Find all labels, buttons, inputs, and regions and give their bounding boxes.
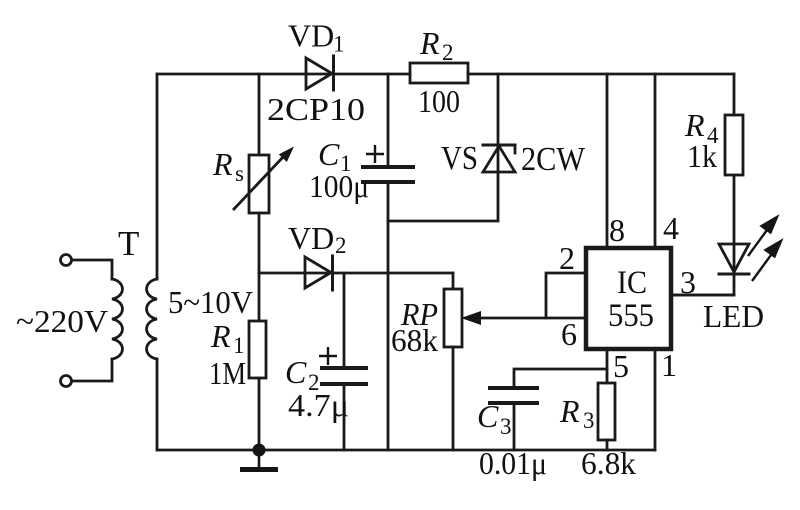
wire R3 bottom lead	[606, 440, 609, 450]
svg-text:VS: VS	[441, 140, 478, 177]
svg-text:2: 2	[442, 40, 454, 65]
svg-text:1k: 1k	[687, 138, 717, 174]
wire VD2 anode lead	[259, 272, 332, 275]
svg-text:6: 6	[561, 316, 577, 352]
capacitor C2 plus sign	[319, 347, 337, 365]
diode VD1	[306, 56, 334, 90]
wire Rs to VD2 node	[258, 213, 261, 273]
transformer T primary winding	[112, 279, 122, 359]
svg-text:100: 100	[418, 83, 460, 119]
transformer T secondary winding	[147, 279, 157, 359]
svg-text:2: 2	[335, 233, 347, 258]
resistor Rs arrow (variable)	[234, 156, 284, 209]
svg-text:C: C	[477, 398, 499, 434]
resistor Rs body	[249, 155, 269, 213]
svg-text:R: R	[210, 318, 231, 354]
node junction dot	[253, 444, 266, 457]
svg-text:IC: IC	[617, 265, 647, 301]
wire pin 2 jog	[546, 273, 586, 318]
wire RP bottom lead	[452, 347, 455, 450]
wire pin 5	[606, 350, 609, 383]
svg-text:R: R	[419, 25, 440, 61]
ground	[240, 450, 278, 470]
wire C1 branch upper	[387, 74, 390, 167]
svg-text:3: 3	[680, 264, 696, 300]
wire VS branch upper	[497, 74, 500, 172]
svg-text:1: 1	[661, 347, 677, 383]
wire top rail middle segment	[334, 73, 410, 76]
svg-text:T: T	[118, 224, 139, 263]
svg-text:5: 5	[613, 348, 629, 384]
resistor R3 body	[598, 383, 615, 440]
svg-text:4.7μ: 4.7μ	[288, 387, 349, 423]
svg-text:100μ: 100μ	[309, 168, 369, 204]
svg-text:2CP10: 2CP10	[267, 91, 365, 127]
wire C3 horizontal	[514, 369, 607, 388]
capacitor C1 plates	[363, 167, 413, 182]
svg-text:VD: VD	[288, 220, 334, 256]
wire pin 4	[654, 74, 657, 247]
wire top rail right segment	[468, 73, 734, 76]
LED diode	[719, 244, 749, 274]
wire AC bottom lead	[72, 359, 112, 381]
svg-text:LED: LED	[703, 298, 764, 334]
wire RP top lead	[452, 273, 455, 289]
svg-text:s: s	[235, 161, 244, 186]
svg-text:R: R	[559, 393, 580, 429]
wire R4 to LED	[733, 175, 736, 273]
svg-text:555: 555	[608, 298, 654, 334]
node AC terminal top	[61, 255, 72, 266]
wire AC top lead	[72, 260, 112, 279]
svg-text:6.8k: 6.8k	[581, 445, 636, 481]
wire bottom rail	[157, 449, 655, 452]
resistor Rs arrowhead	[279, 147, 294, 163]
node AC terminal bottom	[61, 376, 72, 387]
svg-text:VD: VD	[288, 18, 334, 54]
wire pin 1	[654, 350, 657, 450]
svg-text:3: 3	[583, 408, 595, 433]
wire R4 branch top	[733, 74, 736, 115]
svg-text:68k: 68k	[391, 322, 438, 358]
resistor R1 body	[249, 321, 266, 378]
svg-text:0.01μ: 0.01μ	[479, 445, 547, 481]
wire LED cathode to pin 3	[671, 274, 734, 295]
wire C3 bottom lead	[513, 403, 516, 450]
wire C2 branch lower	[343, 384, 346, 450]
resistor R4 body	[725, 115, 743, 175]
IC U1 555 body	[586, 248, 671, 349]
wire C1 branch lower (down to bottom rail)	[387, 182, 390, 450]
capacitor C3 plates	[490, 388, 537, 403]
wire C2 branch upper	[343, 273, 346, 368]
resistor R2 body	[410, 63, 468, 83]
svg-text:1: 1	[333, 32, 345, 57]
wire VS branch lower	[388, 172, 498, 221]
svg-text:2: 2	[559, 240, 575, 276]
svg-text:2CW: 2CW	[521, 141, 586, 178]
wire R1 to ground rail	[258, 378, 261, 450]
capacitor C2 plates	[322, 368, 366, 384]
wire left vertical upper (secondary top lead)	[156, 74, 159, 279]
capacitor C1 plus sign	[366, 145, 384, 163]
wiper arrowhead on RP	[461, 311, 481, 325]
svg-text:3: 3	[500, 414, 512, 439]
LED emission arrows	[748, 217, 781, 281]
diode VD2	[305, 256, 333, 290]
svg-text:4: 4	[663, 210, 679, 246]
svg-text:C: C	[318, 136, 340, 172]
wire pin 8	[606, 74, 609, 247]
zener diode VS	[483, 145, 515, 172]
wire RP wiper to pin 6	[470, 317, 586, 320]
wire VD2 cathode to RP	[332, 272, 453, 275]
potentiometer RP body	[444, 289, 462, 347]
svg-text:~220V: ~220V	[16, 303, 108, 339]
svg-text:1M: 1M	[209, 355, 246, 391]
svg-text:R: R	[212, 146, 233, 182]
wire Rs branch top	[258, 74, 261, 155]
svg-text:8: 8	[609, 212, 625, 248]
svg-text:C: C	[285, 354, 307, 390]
wire VD2 node to R1	[258, 273, 261, 321]
wire top rail left segment	[157, 73, 333, 76]
wire pin 3	[671, 294, 734, 297]
svg-text:5~10V: 5~10V	[168, 284, 253, 320]
wire left vertical lower (secondary bottom lead)	[156, 359, 159, 450]
